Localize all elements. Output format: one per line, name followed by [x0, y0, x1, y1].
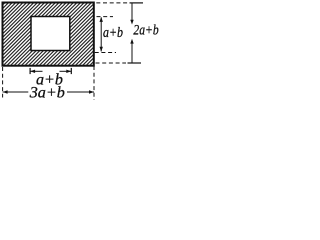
extension dashed line, rectangle top edge to right — [96, 2, 143, 4]
extension dashed line, square bottom edge to right — [95, 52, 116, 54]
extension dashed line, square top edge to right — [97, 16, 114, 18]
svg-text:a+b: a+b — [103, 25, 123, 41]
dimension a+b bottom (hole width) — [30, 68, 71, 74]
label 3a+b — [29, 84, 65, 102]
extension dashed line, rectangle left edge downward — [2, 67, 4, 98]
extension dashed line, rectangle right edge downward — [93, 66, 95, 100]
dimension 2a+b full height — [130, 3, 133, 63]
hatch fill of plate — [0, 3, 160, 66]
label a+b right — [103, 25, 123, 41]
rectangle plate outline — [3, 3, 94, 66]
dimension 3a+b full width — [3, 90, 94, 93]
dimension a+b right side (hole height) — [100, 17, 103, 52]
extension dashed line, rectangle bottom edge to right — [96, 62, 142, 64]
svg-text:2a+b: 2a+b — [133, 23, 159, 39]
label a+b bottom — [36, 72, 63, 89]
label 2a+b — [133, 23, 159, 39]
svg-text:3a+b: 3a+b — [29, 84, 65, 100]
square hole — [31, 17, 70, 51]
